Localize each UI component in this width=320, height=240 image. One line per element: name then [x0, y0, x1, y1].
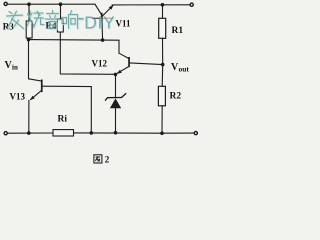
node R1 top junction	[161, 3, 165, 7]
resistor R1	[159, 18, 166, 38]
transistor V12	[119, 53, 129, 58]
node V13 emitter junction	[27, 131, 31, 135]
wire R2 top lead	[161, 65, 164, 87]
transistor V11	[101, 13, 103, 22]
wire R1 bottom to Vout node	[162, 38, 164, 64]
wire R3 top lead	[28, 4, 30, 21]
wire R2 bottom lead	[161, 106, 163, 133]
svg-text:Ri: Ri	[58, 115, 68, 125]
zener diode VZ	[108, 97, 122, 99]
node V11 collector junction	[101, 38, 105, 42]
node R3 bottom junction	[27, 38, 31, 42]
svg-text:V12: V12	[92, 59, 108, 69]
wire R1 top lead	[162, 5, 164, 18]
svg-text:2: 2	[105, 155, 110, 165]
resistor Ri	[53, 130, 74, 136]
wire V11 base lead	[92, 17, 101, 19]
wire V11 base from rail	[95, 4, 101, 14]
svg-text:DIY: DIY	[84, 12, 115, 32]
wire faint strike through V11	[101, 17, 113, 19]
node zener bottom junction	[114, 131, 118, 135]
wire top rail right segment	[112, 4, 190, 6]
svg-text:R1: R1	[172, 26, 184, 36]
wire R3 bottom lead	[28, 38, 31, 40]
wire bottom rail middle	[74, 132, 163, 134]
wire V13 base down to rail	[90, 87, 92, 133]
wire zener top lead	[115, 74, 117, 97]
node Vout junction	[161, 63, 165, 67]
wire node A horizontal (R3 bottom to V12 collector)	[29, 40, 120, 54]
node Ri right junction	[90, 131, 94, 135]
node R4 top junction	[59, 2, 63, 6]
svg-text:R2: R2	[170, 92, 182, 102]
wire R4 bottom lead down to zener net	[60, 32, 115, 74]
wire bottom rail left	[8, 132, 53, 134]
wire R4 top lead	[60, 4, 62, 19]
wire zener bottom lead	[115, 108, 117, 133]
transistor V13	[28, 40, 30, 79]
caption hanzi TU (figure) drawn strokes	[94, 155, 102, 163]
svg-text:V11: V11	[116, 19, 132, 29]
node zener top junction	[114, 73, 118, 77]
svg-text:out: out	[179, 65, 190, 74]
output terminal top-right	[190, 3, 193, 6]
wire top rail left segment	[8, 3, 95, 5]
resistor R4	[57, 19, 63, 32]
input terminal bottom-left	[4, 132, 7, 135]
svg-text:in: in	[12, 64, 18, 72]
node R3 top junction	[27, 2, 31, 6]
watermark fa shao yin xiang - DIY	[7, 11, 117, 34]
resistor R2	[158, 86, 165, 106]
wire bottom rail right	[162, 132, 194, 134]
svg-text:V13: V13	[10, 92, 26, 102]
input terminal top-left	[4, 2, 7, 5]
output terminal bottom-right	[194, 132, 197, 135]
node R2 bottom junction	[160, 131, 164, 135]
resistor R3	[26, 21, 32, 38]
